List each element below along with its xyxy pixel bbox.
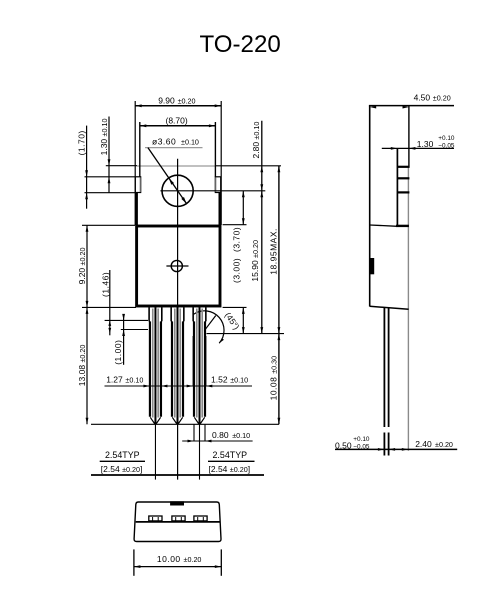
svg-text:1.30: 1.30 [417,139,434,149]
dimension (1.00) [113,314,125,365]
side view: tab front edge [396,148,398,226]
svg-text:(1.46): (1.46) [101,272,111,297]
svg-text:±0.20: ±0.20 [435,440,453,449]
wire: lead centerline extensions [155,424,199,479]
svg-text:2.40: 2.40 [415,439,432,449]
title TO-220 [200,31,281,58]
side view: body bottom edge [370,306,409,309]
front view: left notch [135,177,140,193]
svg-text:ø3.60: ø3.60 [152,136,176,146]
bottom view: lead 3 stub [194,516,207,521]
svg-text:9.90: 9.90 [158,95,175,105]
svg-text:±0.20: ±0.20 [178,96,196,105]
svg-text:(3.70): (3.70) [231,227,241,252]
svg-text:(8.70): (8.70) [166,116,188,126]
svg-text:2.54TYP: 2.54TYP [213,450,248,460]
wire: body-top extension line right [223,224,247,226]
side view: front face (gray) [407,167,409,451]
lead 3 [193,307,206,424]
svg-text:±0.20: ±0.20 [184,555,202,564]
side view: body top edge [370,225,409,226]
bottom view: lead 2 stub [172,516,185,521]
svg-text:+0.10: +0.10 [438,135,455,142]
svg-text:TO-220: TO-220 [200,31,281,58]
front view: body center mark [166,260,188,271]
svg-text:+0.10: +0.10 [353,436,370,443]
front view: tab left edge below notch (thick) [135,193,138,226]
dimension 0.80 +-0.10 [182,430,252,442]
wire: lead shoulder extension line right [207,333,285,335]
wire: lead taper-start extension line [105,319,148,321]
dimension (8.70) [140,116,216,128]
wire: tab-top extension line right [216,165,281,167]
svg-text:[2.54 ±0.20]: [2.54 ±0.20] [209,464,251,474]
svg-text:(3.00): (3.00) [231,258,241,283]
front view: mounting hole [162,175,193,206]
svg-text:(1.00): (1.00) [113,340,123,365]
svg-text:15.90 ±0.20: 15.90 ±0.20 [250,240,260,282]
dimension 15.90 +-0.20 [250,191,263,334]
dimension 1.30 tab thickness [382,135,455,150]
svg-text:2.54TYP: 2.54TYP [105,450,140,460]
wire: lead tip extension line [91,423,279,425]
side view: top edge / 4.50 dimension line [369,92,454,108]
svg-text:10.08 ±0.30: 10.08 ±0.30 [269,356,279,401]
wire: hole horizontal centerline [160,190,265,192]
dimension (1.70) [77,126,89,209]
dimension o3.60 +-0.10 hole diameter label [145,136,203,203]
dimension (3.70) [231,191,244,252]
bottom view: lead 1 stub [149,516,162,521]
bottom view: parting line [136,521,221,523]
wire: body-bottom extension line left [82,306,136,308]
svg-text:1.30 ±0.10: 1.30 ±0.10 [99,119,109,156]
wire: tab-top extension line left [106,165,137,167]
wire: notch-bottom extension line left [85,192,136,194]
svg-text:9.20 ±0.20: 9.20 ±0.20 [77,248,87,285]
wire: body-bottom extension line right [223,306,247,308]
side view: notch bottom line [397,191,409,193]
dimension 9.90 +-0.20 [135,95,221,107]
dimension 1.27 +-0.10 [105,374,253,387]
wire: lead chamfer extension line [121,329,148,331]
svg-text:(1.70): (1.70) [77,130,87,155]
svg-text:0.50: 0.50 [335,440,352,450]
front view: tab top edge (gray) [137,165,216,167]
dimension 2.54TYP right [208,450,255,474]
lead 2 [171,307,184,424]
dimension (1.46) [101,270,112,335]
dimension 2.54TYP left [100,450,145,474]
svg-text:10.00: 10.00 [157,554,181,564]
dimension 0.50 / 2.40 line [335,436,457,451]
front view: tab right edge / 8.70 extension [214,122,216,177]
svg-text:±0.10: ±0.10 [230,375,248,384]
annotation (45 deg) chamfer angle [194,310,242,343]
svg-text:1.27: 1.27 [106,374,123,384]
bottom view: package outline [134,502,221,542]
front view: right notch [215,177,220,193]
svg-text:0.80: 0.80 [212,430,229,440]
svg-text:±0.10: ±0.10 [125,375,143,384]
svg-text:−0.05: −0.05 [353,444,370,451]
svg-text:±0.10: ±0.10 [181,137,199,146]
wire: lead 3 edge extension lines [194,424,205,441]
wire: lead pitch dimension line [91,474,264,476]
front view: tab right edge below notch (thick) [219,193,222,226]
dimension 2.80 +-0.10 [251,121,263,334]
dimension 10.00 +-0.20 [134,549,221,575]
dimension 1.30 +-0.10 [99,117,110,193]
front view: body outline (thick) [137,226,220,306]
dimension 18.95MAX / 10.08 +-0.30 shared line [269,166,281,425]
svg-text:1.52: 1.52 [211,374,228,384]
dimension 9.20 +-0.20 / 13.08 +-0.20 shared line [77,225,89,424]
side view: hole projection mark [369,258,374,274]
svg-text:2.80 ±0.10: 2.80 ±0.10 [251,122,261,159]
svg-text:±0.10: ±0.10 [232,431,250,440]
side view: ledge line [397,166,409,168]
front view: tab left edge / 8.70 extension [139,122,141,177]
svg-text:13.08 ±0.20: 13.08 ±0.20 [77,345,87,387]
svg-text:4.50: 4.50 [414,92,431,102]
wire: body-top extension line left [82,224,135,226]
side view: lead [384,308,388,456]
side view: back (left) edge [369,106,371,307]
wire: 9.90 extension line left [134,101,136,225]
wire: 9.90 extension line right [220,101,222,225]
side view: notch top line [397,177,409,179]
wire: 4.50 extension right / front face upper [408,106,410,167]
bottom view: index notch (black) [170,501,184,505]
dimension 1.52 +-0.10 [187,336,248,387]
dimension (3.00) [231,258,244,334]
wire: package vertical centerline [177,159,179,480]
wire: notch-top extension line left [85,176,136,178]
svg-text:18.95MAX.: 18.95MAX. [269,228,279,275]
lead 1 [149,307,162,424]
svg-text:[2.54 ±0.20]: [2.54 ±0.20] [101,464,143,474]
svg-text:±0.20: ±0.20 [433,93,451,102]
svg-text:−0.05: −0.05 [438,143,455,150]
